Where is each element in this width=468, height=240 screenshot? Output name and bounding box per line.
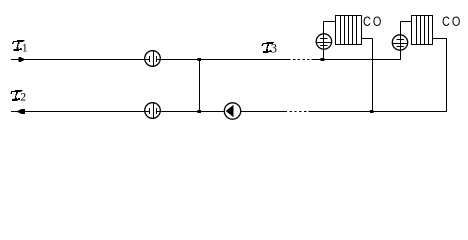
svg-text:CO: CO (442, 14, 462, 30)
svg-text:3: 3 (271, 42, 277, 56)
svg-text:CO: CO (363, 14, 383, 30)
svg-text:2: 2 (20, 91, 26, 103)
svg-text:1: 1 (22, 42, 28, 54)
